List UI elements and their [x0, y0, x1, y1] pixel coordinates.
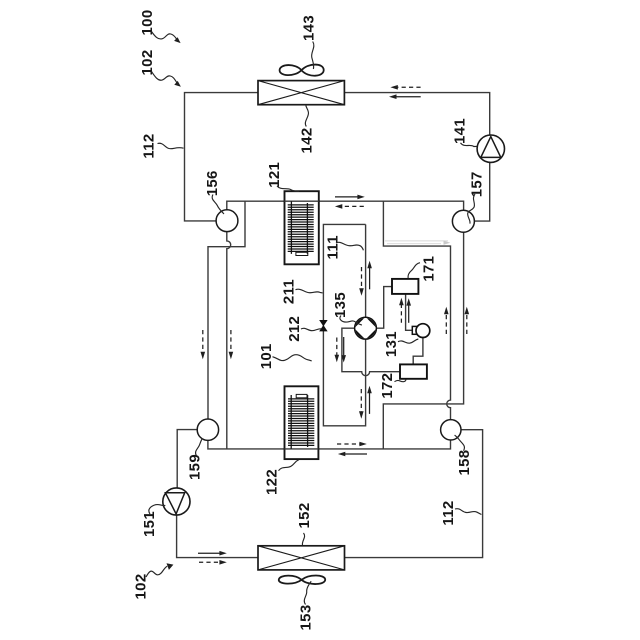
svg-text:112: 112: [141, 133, 158, 158]
flow arrow dashed left below top pipe: [335, 204, 364, 209]
flow arrow dashed down main line above valve 135: [359, 267, 364, 296]
four-way valve 135: [354, 317, 377, 340]
label 171: [408, 256, 437, 282]
svg-text:159: 159: [186, 454, 203, 480]
wire pump 151 to heat exchanger 152: [177, 515, 258, 558]
flow arrow dashed right below bottom outer pipe: [199, 560, 227, 565]
label 141: [452, 118, 478, 146]
label 135: [332, 292, 362, 325]
label 143: [300, 15, 317, 69]
svg-text:131: 131: [383, 331, 400, 357]
svg-text:171: 171: [420, 256, 437, 282]
label 102 bottom: [133, 563, 174, 599]
wire refrigerant loop right side above valve 135: [365, 224, 367, 317]
svg-text:121: 121: [266, 162, 283, 188]
svg-text:142: 142: [299, 128, 316, 154]
compressor 131: [412, 324, 430, 338]
valve 158: [441, 420, 461, 440]
wire valve 135 right branch to tank 171: [376, 287, 392, 329]
wire valve 135 left branch to tank 172 with hop: [342, 328, 400, 375]
valve 159: [197, 419, 218, 440]
wire valve 157 bottom column to bottom pipe: [383, 232, 463, 449]
svg-text:102: 102: [139, 50, 156, 76]
expansion valve 212: [320, 320, 327, 331]
label 100: [139, 10, 181, 44]
wire inner bottom pipe 159-122-158: [208, 440, 451, 449]
pump 141: [477, 135, 504, 162]
flow arrow dashed up right column 463: [465, 307, 470, 334]
flow arrow solid up main line below valve 135: [367, 386, 372, 414]
label 131: [383, 331, 419, 357]
wire top outer loop right segment: [344, 93, 489, 136]
wire valve 159 to pump 151: [177, 430, 197, 488]
wire pump 141 to valve 157: [475, 162, 490, 221]
svg-text:151: 151: [141, 511, 158, 537]
label 102 top: [139, 50, 181, 87]
wire compressor 131 to tank 172: [413, 338, 423, 365]
svg-text:100: 100: [139, 10, 156, 36]
pump 151: [163, 488, 190, 515]
svg-text:111: 111: [325, 235, 342, 259]
wire inner top pipe 156-121-157: [227, 201, 464, 210]
svg-text:158: 158: [456, 450, 473, 476]
svg-text:122: 122: [264, 469, 281, 495]
flow arrow solid down valve left branch: [341, 337, 346, 363]
flow arrow dashed down main line below valve 135: [359, 389, 364, 419]
label 211: [281, 279, 323, 304]
flow arrow solid up main line above valve 135: [367, 261, 372, 290]
label 112 left: [141, 133, 184, 158]
svg-text:112: 112: [440, 500, 457, 525]
tank 172: [400, 364, 427, 378]
flow arrow dashed up compressor suction: [399, 298, 404, 323]
flow arrow dashed right above bottom pipe: [337, 442, 367, 447]
svg-text:141: 141: [452, 118, 469, 144]
label 121: [266, 162, 299, 192]
wire branch node 383 down to valve 158 with hop: [383, 201, 450, 420]
flow arrow dashed up right column 450: [444, 307, 449, 334]
label 151: [141, 504, 165, 536]
svg-text:101: 101: [258, 343, 275, 369]
wire tank 171 to compressor 131: [406, 294, 413, 330]
label 153: [298, 581, 315, 630]
flow arrow dashed down left column 227: [229, 330, 234, 359]
valve 157: [452, 210, 474, 232]
wire heat exchanger 152 to valve 158: [345, 430, 483, 558]
svg-text:152: 152: [296, 503, 313, 529]
valve 156: [216, 210, 238, 232]
label 111: [325, 235, 364, 259]
wire top outer loop left segment: [185, 93, 259, 221]
flow arrow dashed down left column 208: [201, 330, 206, 359]
wire branch node 245 down to valve 159: [208, 201, 245, 419]
tank 171: [392, 279, 418, 294]
heat exchanger 152: [258, 546, 345, 570]
svg-text:172: 172: [379, 373, 396, 399]
flow arrow dashed left above it: [390, 85, 420, 90]
fan 143: [280, 65, 324, 76]
label 156: [204, 170, 224, 214]
label 142: [299, 105, 316, 153]
flow arrow solid left below bottom pipe: [338, 452, 367, 457]
wire valve 156 bottom column with hop: [227, 232, 231, 449]
svg-text:102: 102: [133, 574, 150, 600]
label 112 bottom: [440, 500, 481, 525]
flow arrow solid right above bottom outer pipe: [198, 551, 227, 556]
wire refrigerant loop 111 left and top sides: [323, 224, 365, 425]
label 158: [455, 435, 474, 475]
flow arrow dashed down valve left branch: [335, 338, 340, 363]
svg-text:153: 153: [298, 605, 315, 631]
flow arrow solid right above top pipe: [335, 195, 365, 200]
svg-text:156: 156: [204, 170, 221, 196]
label 152: [296, 503, 313, 546]
svg-text:135: 135: [332, 292, 349, 318]
label 101: [258, 343, 312, 369]
flow arrow solid left above pipe near 142: [389, 94, 421, 99]
label 212: [286, 316, 321, 342]
heat exchanger 122: [285, 386, 319, 459]
label 122: [264, 460, 299, 495]
fan 153: [279, 576, 325, 585]
flow arrow solid up compressor suction: [406, 298, 411, 323]
heat exchanger 121: [285, 191, 319, 264]
svg-text:143: 143: [300, 15, 317, 41]
label 172: [379, 373, 406, 399]
label 159: [186, 438, 203, 480]
faint flow arrow right mid pipe: [385, 241, 450, 245]
heat exchanger 142: [258, 81, 344, 105]
label 157: [468, 171, 486, 223]
svg-text:211: 211: [281, 279, 298, 304]
svg-text:212: 212: [286, 316, 303, 342]
svg-text:157: 157: [468, 171, 485, 197]
